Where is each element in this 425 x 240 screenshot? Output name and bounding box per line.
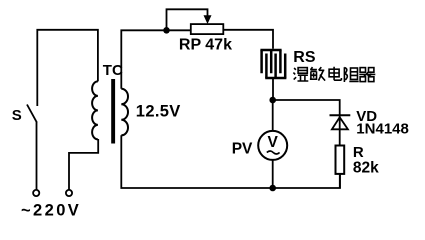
- transformer TC secondary winding: [121, 89, 128, 136]
- svg-text:82k: 82k: [353, 160, 379, 177]
- diode VD triangle: [332, 117, 348, 129]
- terminal right: [66, 190, 72, 196]
- RP wiper arrow: [204, 15, 212, 24]
- svg-text:RS: RS: [293, 49, 316, 66]
- transformer TC primary winding: [92, 81, 98, 139]
- wire RS bottom lead: [272, 79, 274, 100]
- svg-text:S: S: [12, 107, 22, 124]
- wire R to bottom rail: [339, 174, 341, 188]
- wire RP wiper feed: [167, 9, 208, 30]
- svg-text:~220V: ~220V: [21, 202, 81, 220]
- wire switch to left terminal: [36, 122, 38, 189]
- wire primary top loop: [37, 30, 98, 106]
- node junction dot top rail: [163, 27, 170, 34]
- voltmeter PV circle: [258, 131, 287, 160]
- wire junction to diode branch: [273, 100, 340, 114]
- node junction dot RS bottom: [269, 97, 276, 104]
- svg-text:V: V: [268, 134, 279, 151]
- diode VD cathode bar: [330, 114, 351, 116]
- wire RP to RS: [223, 30, 273, 49]
- diode VD wire through: [339, 114, 341, 146]
- wire junction to PV: [272, 100, 274, 131]
- svg-text:1N4148: 1N4148: [356, 121, 409, 138]
- potentiometer RP body: [191, 24, 224, 34]
- svg-text:PV: PV: [232, 140, 253, 157]
- svg-text:TC: TC: [103, 62, 123, 79]
- voltmeter PV tilde: [267, 151, 280, 154]
- wire right terminal to primary bottom: [69, 139, 98, 190]
- svg-text:RP 47k: RP 47k: [179, 37, 232, 54]
- node junction dot bottom rail: [269, 185, 276, 192]
- humidity resistor RS comb: [260, 50, 286, 78]
- wire PV to bottom rail: [272, 160, 274, 188]
- transformer TC core: [111, 79, 115, 144]
- switch S blade: [27, 105, 37, 123]
- terminal left: [33, 190, 39, 196]
- label shimin dianzuqi (humidity resistor, CJK drawn): [293, 67, 375, 82]
- wire bottom rail: [121, 135, 340, 188]
- svg-text:12.5V: 12.5V: [136, 103, 181, 121]
- svg-text:R: R: [353, 144, 364, 161]
- wire secondary top to rail: [121, 30, 191, 88]
- resistor R body: [336, 146, 345, 174]
